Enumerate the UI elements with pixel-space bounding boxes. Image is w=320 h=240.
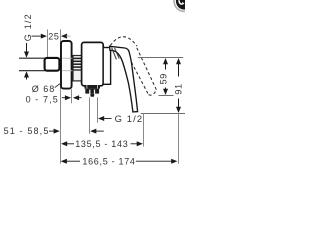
svg-text:25: 25 [48,31,59,41]
handle joint lines [112,48,117,60]
svg-text:135,5 - 143: 135,5 - 143 [75,139,128,149]
hidden pipe lines across escutcheon [62,57,73,59]
dim 25 left arrow [32,34,48,39]
handle lever [110,46,138,112]
outlet extension lines [89,97,91,134]
reference line bottom (y=113.7) [141,113,185,115]
svg-text:Ø 68: Ø 68 [32,84,56,94]
dim 135,5 - 143 [61,141,74,146]
dashed lever outer edge [137,48,157,90]
corner badge icon [173,0,196,12]
cartridge block [103,48,110,85]
outlet stub [90,94,94,97]
svg-text:166,5 - 174: 166,5 - 174 [82,156,135,166]
dashed lever inner edge [126,53,148,95]
reference line mid (y=95.6) [159,95,174,97]
dim 91 [174,58,184,164]
dashed lever tip [149,90,157,95]
dim 25 right arrow [61,34,71,39]
escutcheon face extension line [71,89,73,103]
outlet flange [84,85,100,89]
svg-text:51 - 58,5: 51 - 58,5 [4,126,50,136]
mixer body [82,42,104,85]
svg-text:0 - 7,5: 0 - 7,5 [26,95,59,105]
extension line at x=143.4 [143,114,145,147]
escutcheon [61,41,72,89]
wall extension line (x=60.3) [60,30,62,164]
G1/2 dim line up arrow [24,71,29,79]
label G 1/2 bottom with arrow [98,116,112,121]
reference line top (y=57.9) [138,57,183,59]
G1/2 dim line down arrow [24,43,29,58]
thread block [73,56,82,81]
outlet hex [85,89,99,94]
extension of 91 line down to bottom dim [178,114,180,164]
swing arc dashed [110,37,137,47]
inlet pipe [19,57,45,59]
svg-text:59: 59 [159,73,169,84]
dim 166,5 - 174 [61,159,80,164]
svg-text:G 1/2: G 1/2 [23,13,33,41]
svg-text:91: 91 [174,83,184,94]
svg-text:G 1/2: G 1/2 [115,113,144,124]
25 dim left extension line [47,30,49,58]
dim 59 [159,58,169,95]
union nut [45,58,60,71]
